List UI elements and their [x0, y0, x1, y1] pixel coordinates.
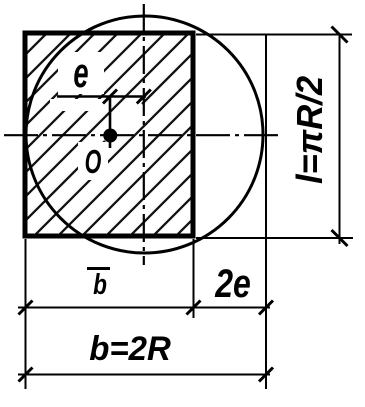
label e	[73, 49, 88, 96]
extension line left	[25, 239, 27, 389]
rectangle (thick outline)	[25, 33, 193, 236]
vertical dimension line l	[339, 33, 341, 244]
extension line right	[265, 35, 267, 390]
e dimension line	[57, 95, 146, 98]
tick row2 right	[259, 368, 273, 382]
tick bottom of l	[332, 230, 348, 246]
label 2e	[214, 261, 250, 306]
svg-text:b: b	[93, 267, 107, 300]
tick row2 left	[19, 368, 33, 382]
centroid axis segment	[109, 97, 112, 149]
top extension line	[196, 34, 352, 36]
dimension line row 2	[18, 374, 270, 376]
tick on e line right	[137, 90, 151, 104]
svg-text:l=πR/2: l=πR/2	[290, 76, 330, 184]
label l=piR/2 (rotated)	[290, 76, 330, 184]
label b=2R	[89, 331, 171, 369]
svg-text:b=2R: b=2R	[89, 331, 171, 369]
bottom right extension line	[196, 237, 353, 239]
label b bar	[93, 267, 107, 300]
extension line middle	[193, 239, 195, 318]
horizontal centerline	[4, 134, 278, 136]
tick top of l	[332, 27, 348, 43]
tick row1 left	[19, 301, 33, 315]
dimension line row 1	[18, 307, 270, 309]
svg-text:O: O	[85, 143, 102, 180]
label O	[85, 143, 102, 180]
hatching of rectangle	[0, 0, 365, 250]
tick row1 right	[259, 301, 273, 315]
white gaps around labels	[50, 52, 108, 180]
tick on e line left	[103, 90, 117, 104]
svg-text:2e: 2e	[214, 261, 250, 306]
svg-text:e: e	[73, 49, 88, 96]
tick row1 middle	[187, 301, 201, 315]
circle R	[26, 16, 263, 253]
overbar of b	[87, 267, 110, 270]
vertical centerline	[143, 4, 145, 265]
centroid dot O	[103, 129, 117, 143]
